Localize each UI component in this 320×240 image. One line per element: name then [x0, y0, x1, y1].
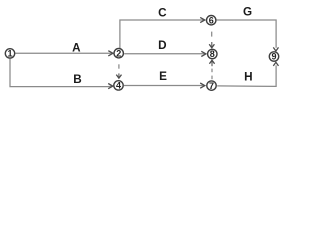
svg-text:B: B: [73, 73, 81, 86]
svg-text:A: A: [72, 42, 81, 55]
wire D arrow 2->8: [124, 51, 206, 56]
svg-text:4: 4: [116, 81, 121, 91]
svg-text:6: 6: [209, 15, 214, 25]
svg-text:9: 9: [271, 52, 276, 62]
svg-text:G: G: [243, 6, 252, 19]
svg-text:E: E: [159, 70, 167, 83]
node 6: [207, 15, 216, 25]
wire dashed dummy 6->8: [209, 32, 214, 48]
node 7: [207, 81, 216, 91]
svg-text:C: C: [158, 7, 167, 20]
wire H arrow 7->9: [217, 62, 278, 86]
node 8: [208, 49, 217, 59]
node 2: [114, 48, 123, 58]
node 9: [269, 52, 278, 62]
svg-text:1: 1: [7, 49, 12, 59]
wire E arrow 4->7: [124, 83, 205, 88]
wire dashed dummy 7->8: [209, 60, 214, 79]
wire G arrow 6->9: [217, 20, 279, 51]
node 1: [5, 49, 14, 59]
wire B arrow 1->4: [10, 59, 113, 89]
svg-text:H: H: [244, 70, 252, 83]
svg-text:2: 2: [116, 48, 121, 58]
wire dashed dummy 2->4: [116, 64, 121, 78]
wire C arrow 2->6: [120, 17, 205, 48]
svg-text:D: D: [158, 39, 166, 52]
wire A arrow 1->2: [15, 51, 113, 56]
svg-text:7: 7: [209, 81, 214, 91]
svg-text:8: 8: [210, 49, 215, 59]
node 4: [114, 81, 123, 91]
